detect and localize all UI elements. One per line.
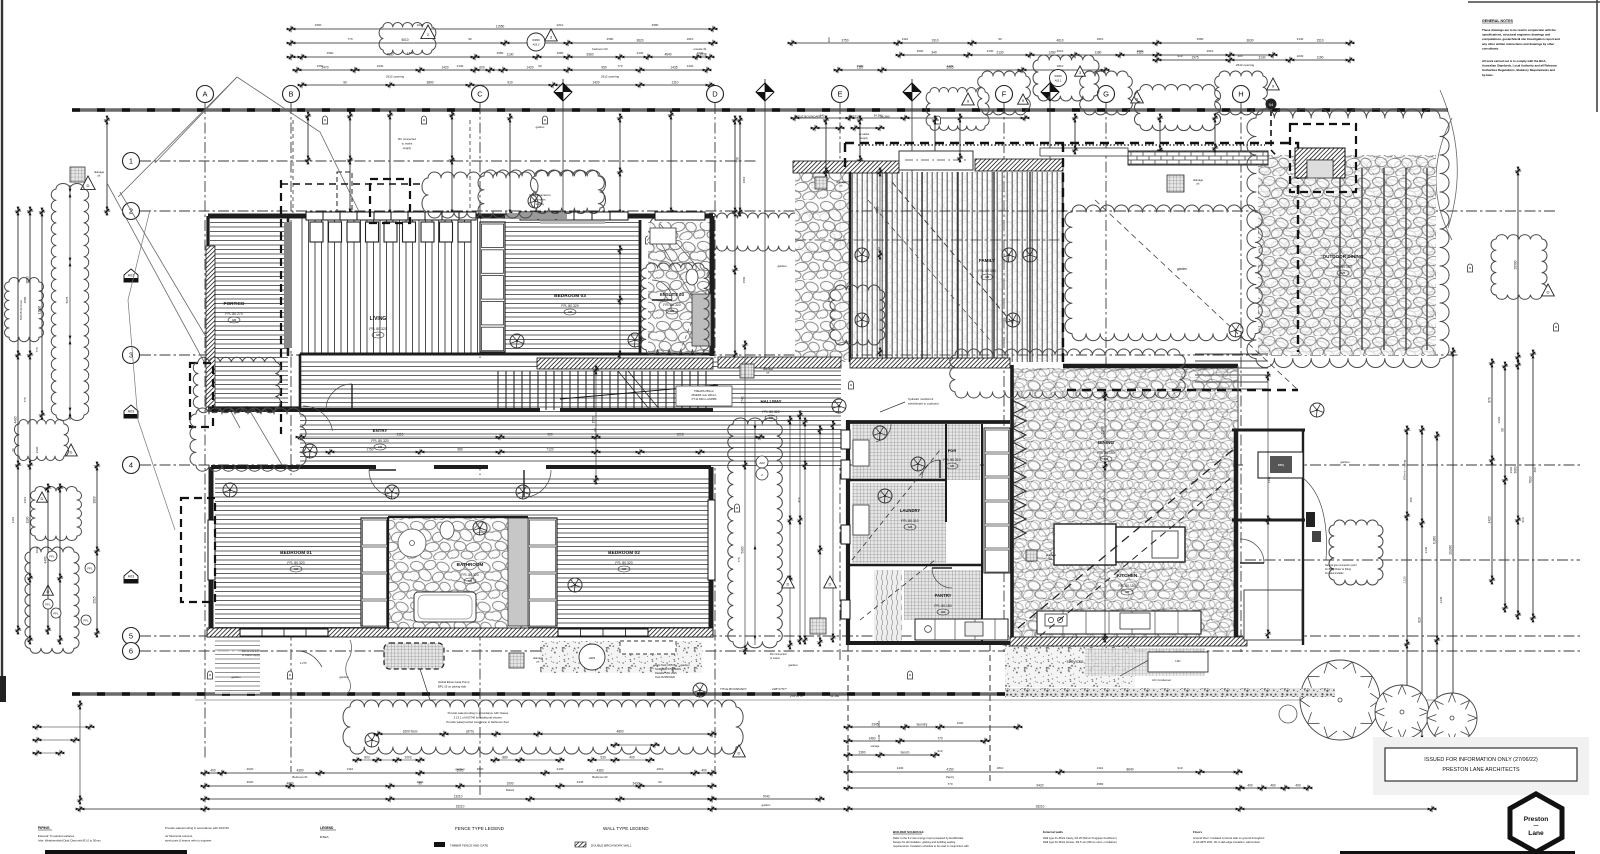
- svg-text:90: 90: [468, 37, 472, 41]
- svg-text:BPL-15 on paving slab: BPL-15 on paving slab: [438, 685, 467, 689]
- svg-text:1560: 1560: [317, 64, 324, 68]
- svg-text:3890: 3890: [426, 80, 433, 84]
- svg-text:1910: 1910: [931, 38, 938, 42]
- svg-text:pit: pit: [537, 660, 540, 664]
- svg-text:by-laws.: by-laws.: [1482, 73, 1494, 77]
- svg-text:1430: 1430: [1267, 476, 1271, 483]
- svg-text:1600 Nom: 1600 Nom: [403, 729, 418, 733]
- svg-text:GB: GB: [294, 567, 298, 571]
- svg-text:3130: 3130: [457, 64, 464, 68]
- svg-text:FFL 80.150: FFL 80.150: [934, 604, 951, 608]
- svg-text:FFL 80.320: FFL 80.320: [287, 561, 304, 565]
- svg-text:870: 870: [1488, 397, 1492, 403]
- svg-text:specifications, structural e: specifications, structural engineers dra…: [1482, 33, 1550, 37]
- svg-text:External walls: External walls: [1043, 830, 1063, 834]
- svg-text:1130: 1130: [507, 52, 514, 56]
- svg-text:4640: 4640: [664, 52, 671, 56]
- svg-text:3430: 3430: [632, 781, 639, 785]
- svg-text:4360: 4360: [596, 768, 603, 772]
- svg-text:supply: supply: [403, 146, 412, 150]
- svg-text:3130: 3130: [1424, 546, 1428, 553]
- svg-text:400: 400: [1533, 467, 1537, 472]
- svg-text:A03.2: A03.2: [533, 43, 540, 47]
- svg-text:1510: 1510: [1316, 38, 1323, 42]
- svg-text:820: 820: [1418, 617, 1422, 623]
- svg-text:D: D: [787, 581, 790, 586]
- svg-text:Wall type 01–Brick Cavity, R2.: Wall type 01–Brick Cavity, R2.35 (50mm K…: [1043, 836, 1117, 840]
- svg-text:for rated installer: for rated installer: [1325, 572, 1344, 575]
- svg-text:1500: 1500: [592, 416, 596, 423]
- svg-text:pit: pit: [98, 174, 101, 178]
- svg-text:3680: 3680: [26, 276, 30, 283]
- svg-text:ISSUED FOR INFORMATION ONLY (2: ISSUED FOR INFORMATION ONLY (27/06/22): [1424, 757, 1538, 763]
- svg-text:4580: 4580: [23, 296, 27, 303]
- svg-text:1030: 1030: [697, 51, 704, 55]
- svg-text:garden: garden: [536, 125, 545, 129]
- svg-text:2110: 2110: [11, 516, 15, 523]
- svg-text:1420: 1420: [592, 80, 599, 84]
- svg-text:400: 400: [1237, 54, 1242, 58]
- svg-text:GB: GB: [1341, 271, 1345, 275]
- svg-text:910: 910: [1177, 766, 1182, 770]
- svg-text:600: 600: [479, 65, 485, 69]
- svg-text:400: 400: [1247, 783, 1253, 787]
- svg-text:pit: pit: [1050, 557, 1053, 561]
- svg-text:3130: 3130: [1297, 37, 1304, 41]
- svg-text:Australian Standards, Local Au: Australian Standards, Local Authority an…: [1482, 64, 1557, 68]
- svg-text:B Bath: B Bath: [320, 835, 329, 839]
- svg-text:garden: garden: [788, 663, 798, 667]
- svg-text:278°27'07": 278°27'07": [790, 694, 805, 698]
- svg-text:DOUBLE BRICKWORK WALL: DOUBLE BRICKWORK WALL: [591, 844, 632, 848]
- svg-text:4580: 4580: [1197, 37, 1204, 41]
- svg-text:2110: 2110: [877, 246, 881, 253]
- svg-text:drainage: drainage: [1193, 178, 1204, 182]
- svg-text:PANTRY: PANTRY: [935, 593, 952, 598]
- svg-text:TIMBER FENCE AND GATE: TIMBER FENCE AND GATE: [450, 844, 488, 848]
- svg-text:FFL 80.150: FFL 80.150: [1097, 451, 1114, 455]
- svg-text:Tank R2350X620: Tank R2350X620: [655, 675, 675, 679]
- svg-text:drainage: drainage: [1046, 553, 1057, 557]
- svg-text:2740: 2740: [741, 396, 745, 403]
- svg-text:1,180: 1,180: [1101, 426, 1105, 434]
- svg-text:garden: garden: [762, 803, 771, 807]
- svg-text:90: 90: [998, 37, 1002, 41]
- svg-text:1435: 1435: [670, 65, 677, 69]
- svg-text:770: 770: [347, 37, 352, 41]
- svg-text:1750: 1750: [366, 447, 373, 451]
- svg-text:G: G: [1103, 90, 1109, 99]
- svg-text:Provide waterproofed membrane: Provide waterproofed membrane to bathroo…: [446, 720, 509, 724]
- svg-text:RISERS max 190mm: RISERS max 190mm: [692, 393, 717, 397]
- svg-text:54,380: 54,380: [874, 113, 883, 117]
- svg-text:3620: 3620: [917, 49, 924, 53]
- svg-text:FFL 80.150: FFL 80.150: [1118, 584, 1135, 588]
- svg-text:(870): (870): [466, 729, 473, 733]
- svg-text:1560: 1560: [742, 276, 746, 283]
- svg-text:1430: 1430: [407, 51, 414, 55]
- svg-text:1190: 1190: [1317, 55, 1324, 59]
- svg-text:FFL: FFL: [53, 611, 59, 615]
- svg-text:H: H: [1238, 90, 1243, 99]
- svg-text:D: D: [712, 90, 718, 99]
- svg-text:Preston: Preston: [1524, 816, 1549, 823]
- svg-text:1000: 1000: [456, 768, 463, 772]
- svg-text:for BBQ. Refer to fitting: for BBQ. Refer to fitting: [1325, 568, 1351, 571]
- svg-text:PORTICO: PORTICO: [224, 301, 245, 306]
- svg-text:1803: 1803: [93, 496, 97, 503]
- svg-text:3620: 3620: [247, 780, 254, 784]
- svg-text:garden: garden: [680, 663, 690, 667]
- svg-text:1420: 1420: [526, 65, 533, 69]
- svg-text:400: 400: [1295, 783, 1301, 787]
- svg-text:2612 opening: 2612 opening: [601, 75, 620, 79]
- svg-text:2110: 2110: [672, 80, 679, 84]
- svg-text:FENCE TYPE LEGEND: FENCE TYPE LEGEND: [455, 826, 505, 831]
- svg-text:2345: 2345: [1439, 596, 1443, 603]
- svg-text:910: 910: [797, 497, 801, 502]
- svg-text:Refer to the 6.2 star energy r: Refer to the 6.2 star energy report prep…: [893, 836, 964, 840]
- svg-text:FFL 80.320: FFL 80.320: [615, 561, 632, 565]
- svg-text:OUTDOOR DINING: OUTDOOR DINING: [1323, 254, 1364, 259]
- svg-text:11550: 11550: [496, 24, 505, 28]
- svg-text:FFL 80.320: FFL 80.320: [762, 410, 779, 414]
- svg-text:2130: 2130: [996, 50, 1003, 54]
- svg-text:GB: GB: [232, 318, 236, 322]
- svg-text:Lane: Lane: [1528, 830, 1544, 837]
- svg-text:A03: A03: [128, 274, 134, 278]
- svg-text:garden: garden: [777, 264, 787, 268]
- svg-text:GB: GB: [950, 464, 954, 468]
- svg-text:A03: A03: [128, 410, 134, 414]
- svg-text:1030: 1030: [1297, 54, 1304, 58]
- svg-text:A03: A03: [128, 575, 134, 579]
- svg-text:870mm + railing: 870mm + railing: [1403, 460, 1407, 480]
- svg-text:2610: 2610: [657, 767, 664, 771]
- svg-text:3130: 3130: [987, 49, 994, 53]
- svg-text:HALLWAY: HALLWAY: [760, 399, 781, 404]
- svg-text:FFL: FFL: [87, 566, 93, 570]
- svg-text:4800: 4800: [616, 729, 623, 733]
- svg-text:770: 770: [947, 782, 952, 786]
- svg-text:770: 770: [737, 557, 741, 562]
- svg-text:4010: 4010: [1057, 49, 1064, 53]
- svg-text:1000: 1000: [506, 781, 513, 785]
- svg-text:2610: 2610: [1207, 49, 1214, 53]
- svg-text:1560: 1560: [417, 780, 424, 784]
- svg-text:D: D: [829, 581, 832, 586]
- svg-text:FFL 80.320: FFL 80.320: [663, 303, 680, 307]
- svg-text:storage: storage: [871, 744, 880, 748]
- svg-text:WM03: WM03: [1054, 75, 1062, 78]
- svg-text:HIC: HIC: [1175, 659, 1181, 663]
- svg-text:1180: 1180: [1095, 50, 1102, 54]
- svg-text:any other written instructi: any other written instructions and drawi…: [1482, 42, 1555, 46]
- svg-text:GENERAL NOTES: GENERAL NOTES: [1482, 19, 1513, 23]
- svg-text:228°27'07": 228°27'07": [772, 687, 787, 691]
- svg-text:PDR: PDR: [948, 448, 957, 453]
- svg-text:90: 90: [343, 80, 347, 84]
- svg-text:980: 980: [457, 447, 463, 451]
- svg-text:7690: 7690: [1529, 476, 1533, 483]
- svg-text:—: —: [1534, 823, 1539, 829]
- svg-text:770: 770: [617, 64, 622, 68]
- svg-text:9420: 9420: [1036, 783, 1043, 787]
- svg-text:7120: 7120: [546, 447, 553, 451]
- svg-text:Reliable S/W HWS: Reliable S/W HWS: [655, 671, 677, 675]
- svg-text:1420: 1420: [441, 65, 448, 69]
- svg-text:2610: 2610: [557, 23, 564, 27]
- svg-text:GB: GB: [670, 309, 674, 313]
- svg-text:FFL 80.150: FFL 80.150: [1334, 265, 1351, 269]
- svg-text:A/C Condenser: A/C Condenser: [1152, 678, 1171, 682]
- svg-text:GB: GB: [1125, 590, 1129, 594]
- svg-text:8640: 8640: [1126, 767, 1133, 771]
- svg-text:2115: 2115: [397, 432, 404, 436]
- svg-text:3580: 3580: [876, 206, 880, 213]
- svg-text:to mains: to mains: [770, 656, 781, 660]
- svg-text:supply: supply: [860, 136, 868, 140]
- svg-text:2345: 2345: [577, 780, 584, 784]
- svg-text:5: 5: [129, 632, 133, 641]
- svg-text:LAUNDRY: LAUNDRY: [900, 508, 921, 513]
- svg-text:drainage: drainage: [94, 170, 105, 174]
- svg-text:GB: GB: [376, 333, 380, 337]
- svg-text:460: 460: [1270, 783, 1276, 787]
- svg-text:FFL 80.320: FFL 80.320: [371, 439, 388, 443]
- svg-text:1810: 1810: [1097, 37, 1104, 41]
- svg-text:1218: 1218: [676, 432, 683, 436]
- svg-text:Provide waterproofing in accor: Provide waterproofing in accordance with…: [448, 711, 509, 715]
- svg-text:FFL 80.270: FFL 80.270: [225, 312, 242, 316]
- svg-text:880: 880: [502, 755, 508, 759]
- svg-text:15210: 15210: [456, 804, 465, 808]
- svg-text:RC connected: RC connected: [770, 652, 787, 656]
- svg-text:5900: 5900: [741, 546, 745, 553]
- svg-text:GB: GB: [378, 445, 382, 449]
- svg-text:ENSUITE 03: ENSUITE 03: [660, 292, 685, 297]
- svg-text:770: 770: [937, 736, 943, 740]
- svg-text:bench: bench: [901, 750, 910, 754]
- svg-text:Natural gas connection point: Natural gas connection point: [1325, 564, 1357, 567]
- svg-text:BATHROOM: BATHROOM: [457, 562, 484, 567]
- svg-text:C: C: [477, 90, 483, 99]
- svg-text:drainage: drainage: [763, 367, 774, 371]
- svg-text:950: 950: [601, 65, 607, 69]
- svg-text:A03.2: A03.2: [1055, 80, 1062, 83]
- svg-text:hydraulic manifold &: hydraulic manifold &: [908, 397, 933, 401]
- svg-text:3130: 3130: [1258, 55, 1265, 59]
- svg-text:FFL 80.310: FFL 80.310: [901, 519, 918, 523]
- svg-text:910: 910: [1177, 54, 1182, 58]
- svg-text:2612 opening: 2612 opening: [1236, 63, 1255, 67]
- svg-text:drainage: drainage: [836, 180, 847, 184]
- svg-text:computations, geotechnical sit: computations, geotechnical site investig…: [1482, 37, 1560, 41]
- svg-text:KITCHEN: KITCHEN: [1117, 573, 1138, 578]
- svg-text:FFL 80.320: FFL 80.320: [461, 573, 478, 577]
- svg-text:4580: 4580: [497, 51, 504, 55]
- svg-text:steel posts & beams refer to e: steel posts & beams refer to engineer: [165, 839, 212, 843]
- svg-text:PIPING: PIPING: [38, 826, 50, 830]
- svg-text:770: 770: [23, 397, 27, 402]
- svg-text:1030: 1030: [377, 64, 384, 68]
- svg-text:F: F: [1002, 90, 1007, 99]
- svg-text:4: 4: [129, 461, 133, 470]
- svg-text:400: 400: [1409, 497, 1413, 502]
- svg-text:bedroom 02: bedroom 02: [592, 47, 608, 51]
- svg-text:Bedroom 02: Bedroom 02: [592, 775, 608, 779]
- svg-text:530: 530: [600, 755, 606, 759]
- svg-text:1430: 1430: [897, 766, 904, 770]
- svg-text:Design for all insulation, gla: Design for all insulation, glazing and b…: [893, 840, 956, 844]
- svg-text:pit: pit: [767, 371, 770, 375]
- svg-text:HWS: HWS: [589, 656, 596, 660]
- svg-text:Inlet: Weathershield Dual Clea: Inlet: Weathershield Dual Clear with R1.…: [38, 839, 101, 843]
- svg-text:consultants.: consultants.: [1482, 46, 1499, 50]
- svg-text:These drawings are to be read: These drawings are to be read in conjunc…: [1482, 28, 1556, 32]
- svg-text:FAMILY: FAMILY: [979, 258, 995, 263]
- svg-text:D: D: [41, 496, 44, 501]
- svg-text:SLIMLINE 575L/5000L: SLIMLINE 575L/5000L: [655, 667, 682, 671]
- svg-text:400: 400: [827, 37, 831, 42]
- svg-text:pit: pit: [840, 184, 843, 188]
- svg-text:TREADS 250mm: TREADS 250mm: [694, 389, 714, 393]
- svg-text:Global Elmec Heat Pump: Global Elmec Heat Pump: [438, 680, 470, 684]
- svg-text:GB: GB: [568, 310, 572, 314]
- svg-text:switchboard to cupboard: switchboard to cupboard: [908, 402, 939, 406]
- svg-text:4400: 4400: [14, 416, 18, 423]
- svg-text:3620: 3620: [636, 38, 643, 42]
- svg-text:1810: 1810: [1057, 64, 1064, 68]
- svg-text:RC connected: RC connected: [398, 137, 416, 141]
- svg-text:GB: GB: [941, 610, 945, 614]
- svg-text:FFL 80.150: FFL 80.150: [978, 269, 995, 273]
- svg-text:BEDROOM 01: BEDROOM 01: [280, 550, 312, 556]
- svg-text:Wall type 02–Brick Veneer, R2.: Wall type 02–Brick Veneer, R2.5 min (90m…: [1043, 840, 1117, 844]
- svg-text:1,120: 1,120: [1403, 576, 1407, 583]
- svg-text:90: 90: [1501, 428, 1505, 432]
- svg-text:4580: 4580: [857, 64, 864, 68]
- svg-text:LIVING: LIVING: [370, 316, 387, 322]
- svg-text:400: 400: [629, 755, 635, 759]
- svg-text:4150: 4150: [946, 767, 953, 771]
- svg-text:BUILDER SCHEDULE: BUILDER SCHEDULE: [893, 830, 924, 834]
- svg-text:400: 400: [701, 768, 707, 772]
- svg-text:6: 6: [129, 647, 133, 656]
- svg-text:Bedroom 01: Bedroom 01: [292, 775, 308, 779]
- svg-text:garden: garden: [1340, 460, 1350, 464]
- svg-text:FFL: FFL: [49, 554, 55, 558]
- svg-text:Floors: Floors: [1193, 830, 1202, 834]
- svg-text:4610: 4610: [1056, 38, 1063, 42]
- svg-text:4300: 4300: [296, 768, 303, 772]
- svg-text:D: D: [87, 183, 90, 188]
- svg-text:2110: 2110: [347, 767, 354, 771]
- svg-text:FFL 80.320: FFL 80.320: [369, 327, 386, 331]
- svg-text:A03: A03: [759, 461, 765, 465]
- svg-text:to mains: to mains: [402, 142, 413, 146]
- svg-text:1810: 1810: [997, 766, 1004, 770]
- svg-text:1190: 1190: [26, 516, 30, 523]
- svg-text:to realise: to realise: [859, 132, 870, 136]
- svg-text:4580: 4580: [652, 23, 659, 27]
- svg-text:3620: 3620: [1509, 466, 1513, 473]
- svg-text:910: 910: [1521, 517, 1525, 522]
- svg-text:2612 opening: 2612 opening: [386, 75, 405, 79]
- svg-text:1560: 1560: [327, 51, 334, 55]
- svg-text:FFL 80.320: FFL 80.320: [561, 304, 578, 308]
- svg-text:GB: GB: [622, 567, 626, 571]
- svg-text:garden: garden: [231, 675, 241, 679]
- svg-text:A: A: [202, 90, 207, 99]
- svg-text:RC connected: RC connected: [242, 649, 259, 653]
- svg-text:1975: 1975: [1191, 55, 1198, 59]
- svg-text:External: To painted surfaces: External: To painted surfaces: [38, 834, 75, 838]
- svg-text:TITLE BOUNDARY: TITLE BOUNDARY: [720, 687, 747, 691]
- svg-text:750: 750: [736, 157, 740, 163]
- svg-text:requirements. Insulation sched: requirements. Insulation schedule to be …: [893, 844, 969, 848]
- svg-text:1810: 1810: [877, 720, 881, 727]
- svg-text:Provide waterproofing in accor: Provide waterproofing in accordance with…: [165, 826, 230, 830]
- svg-text:GB: GB: [468, 579, 472, 583]
- svg-text:D: D: [738, 750, 741, 755]
- svg-text:04: 04: [1269, 102, 1274, 107]
- svg-text:54,380: 54,380: [830, 694, 840, 698]
- svg-text:2390: 2390: [858, 750, 865, 754]
- svg-text:3060: 3060: [1514, 466, 1518, 473]
- svg-text:910: 910: [507, 80, 513, 84]
- svg-text:1810: 1810: [687, 37, 694, 41]
- svg-text:5010: 5010: [401, 38, 408, 42]
- svg-text:13210: 13210: [454, 794, 463, 798]
- svg-text:910: 910: [937, 749, 942, 753]
- svg-text:B: B: [288, 90, 293, 99]
- svg-text:Robe2: Robe2: [506, 788, 515, 792]
- svg-text:to mains supply: to mains supply: [242, 653, 261, 657]
- svg-text:90: 90: [658, 780, 662, 784]
- svg-text:2110: 2110: [1097, 766, 1104, 770]
- svg-text:taundry: taundry: [917, 722, 928, 726]
- svg-text:PT.14 R20 to AS4586: PT.14 R20 to AS4586: [692, 397, 717, 401]
- svg-text:DINING: DINING: [1098, 440, 1115, 445]
- svg-text:6360: 6360: [586, 52, 593, 56]
- svg-text:BEDROOM 02: BEDROOM 02: [608, 550, 640, 556]
- svg-text:D: D: [1547, 289, 1550, 294]
- svg-text:LEGEND: LEGEND: [320, 826, 334, 830]
- svg-text:90: 90: [593, 428, 597, 432]
- svg-text:400: 400: [1102, 497, 1106, 502]
- svg-text:WM03: WM03: [532, 38, 540, 42]
- svg-text:Rain Tank CR575: Rain Tank CR575: [655, 663, 676, 667]
- svg-text:5075: 5075: [65, 296, 69, 303]
- svg-text:1003: 1003: [404, 755, 411, 759]
- svg-text:26300: 26300: [1514, 260, 1518, 269]
- svg-text:2610: 2610: [23, 496, 27, 503]
- svg-text:90: 90: [11, 448, 15, 452]
- svg-text:4580: 4580: [557, 51, 564, 55]
- svg-text:1,270: 1,270: [300, 661, 307, 665]
- svg-text:SERVICES: SERVICES: [1066, 660, 1084, 664]
- svg-text:garden: garden: [1177, 267, 1187, 271]
- svg-text:Ground Floor: Insulated concre: Ground Floor: Insulated concrete slab on…: [1193, 836, 1265, 840]
- svg-text:FFL 80.310: FFL 80.310: [943, 458, 960, 462]
- svg-text:11130: 11130: [38, 306, 42, 315]
- svg-text:1430: 1430: [947, 64, 954, 68]
- svg-text:4580: 4580: [1097, 782, 1104, 786]
- svg-text:3130: 3130: [557, 767, 564, 771]
- svg-text:3750: 3750: [841, 38, 848, 42]
- svg-text:770: 770: [35, 347, 39, 352]
